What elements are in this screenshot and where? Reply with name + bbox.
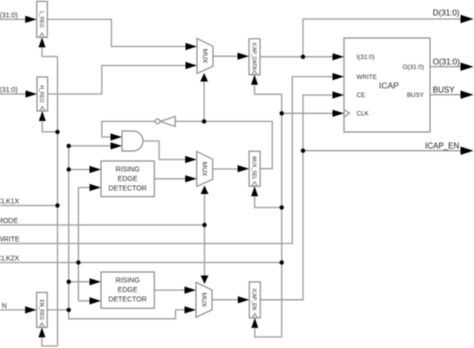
svg-text:ICAP_EN: ICAP_EN [425,142,459,151]
svg-text:DETECTOR: DETECTOR [108,297,146,304]
svg-text:MUX: MUX [201,49,208,64]
svg-text:BUSY: BUSY [407,92,425,99]
svg-text:DETECTOR: DETECTOR [108,185,146,192]
svg-text:D(31:0): D(31:0) [0,87,18,94]
svg-text:MODE: MODE [0,218,18,225]
svg-text:EN_REG: EN_REG [38,300,44,321]
svg-text:D(31:0): D(31:0) [433,9,460,18]
svg-text:CLK2X: CLK2X [0,256,20,263]
svg-text:CLK1X: CLK1X [0,199,20,206]
svg-text:L_REG: L_REG [38,11,44,28]
svg-text:ICAP_EN: ICAP_EN [251,289,257,311]
svg-text:CE: CE [357,92,366,99]
svg-text:RISING: RISING [116,166,140,173]
svg-text:BUSY: BUSY [433,86,455,95]
svg-text:N: N [2,303,7,310]
svg-text:MUX: MUX [201,162,208,177]
svg-text:WRITE: WRITE [357,74,377,81]
svg-text:MUX: MUX [200,293,207,308]
svg-text:O(31:0): O(31:0) [433,58,460,67]
svg-text:D(31:0): D(31:0) [0,13,18,20]
svg-text:EDGE: EDGE [118,176,138,183]
svg-text:MUX_SEL: MUX_SEL [251,156,257,180]
svg-text:H_REG: H_REG [38,85,44,102]
svg-text:O(31:0): O(31:0) [403,64,424,71]
svg-text:WRITE: WRITE [0,237,20,244]
svg-text:ICAP: ICAP [379,80,399,90]
svg-text:EDGE: EDGE [118,287,138,294]
svg-text:RISING: RISING [116,278,140,285]
svg-text:CLK: CLK [357,111,370,118]
svg-text:I(31:0): I(31:0) [357,54,375,61]
svg-text:ICAP_DATA: ICAP_DATA [250,42,256,70]
